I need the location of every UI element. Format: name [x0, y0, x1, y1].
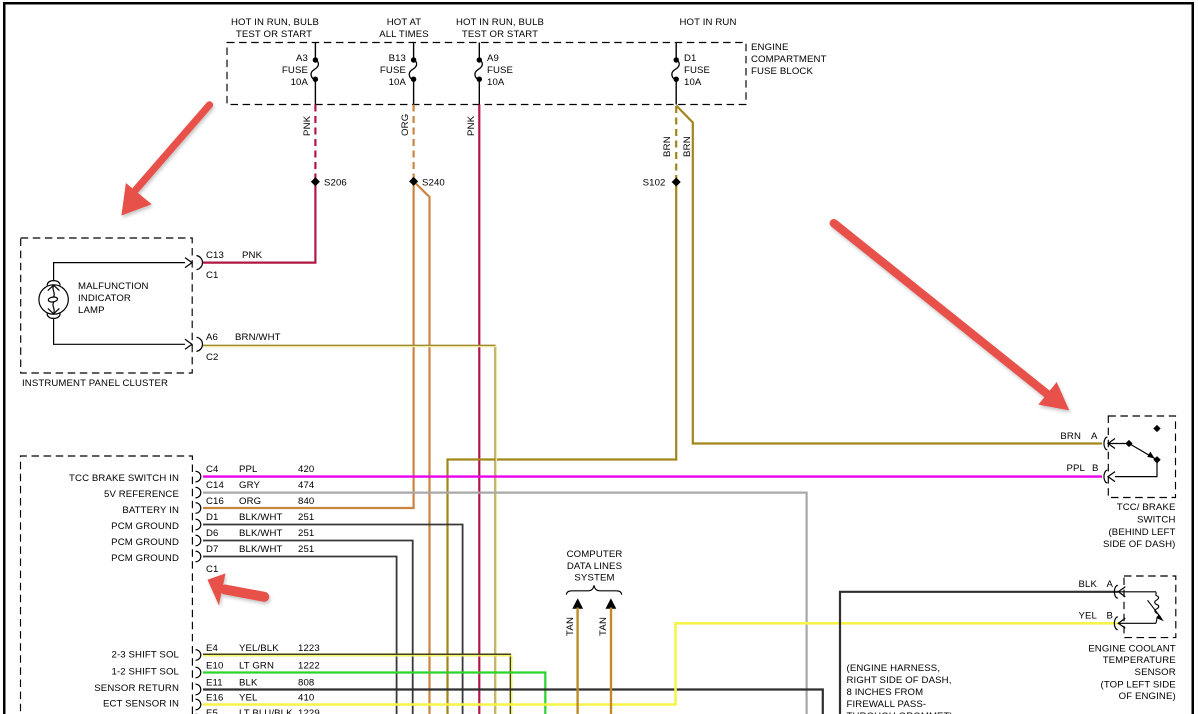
svg-text:RIGHT SIDE OF DASH,: RIGHT SIDE OF DASH,: [847, 675, 952, 686]
annotation arrow (top left, red): [121, 105, 209, 216]
feed label fuse A9: [456, 17, 544, 40]
wire BLK/WHT D7: [203, 557, 397, 714]
svg-text:ORG: ORG: [239, 496, 261, 507]
splice S206: [324, 178, 347, 189]
svg-text:GRY: GRY: [239, 480, 260, 491]
annotation arrow (small, near C1, red): [208, 573, 265, 605]
svg-text:FUSE: FUSE: [380, 65, 406, 76]
wire BLK E11: [203, 690, 823, 714]
svg-text:BRN: BRN: [662, 136, 673, 157]
fuse D1: [672, 43, 710, 105]
wire BRN S102 down-left-down: [448, 182, 677, 714]
connector arc A6: [197, 337, 203, 351]
svg-text:8 INCHES FROM: 8 INCHES FROM: [847, 687, 924, 698]
engine compartment fuse block box: [227, 43, 746, 105]
pin labels C13 / C1: [206, 250, 263, 281]
wire BRN/WHT IPC C2 to bottom (two-tone): [203, 345, 496, 714]
PCM row D1 BLK/WHT 251: [111, 512, 314, 532]
svg-text:E5: E5: [206, 708, 218, 714]
svg-text:PCM GROUND: PCM GROUND: [111, 553, 179, 564]
svg-text:E4: E4: [206, 643, 219, 654]
svg-text:10A: 10A: [684, 77, 702, 88]
feed label fuse B13: [379, 17, 429, 40]
wire LT GRN E10: [203, 673, 545, 714]
svg-text:BRN: BRN: [682, 136, 693, 157]
PCM row C4 PPL 420: [69, 464, 314, 484]
svg-text:PCM GROUND: PCM GROUND: [111, 537, 179, 548]
svg-text:420: 420: [298, 464, 314, 475]
ECT terminal B connector: [1114, 617, 1156, 630]
TCC switch contacts: [1115, 425, 1161, 477]
svg-text:D1: D1: [684, 53, 697, 64]
svg-text:(ENGINE HARNESS,: (ENGINE HARNESS,: [847, 663, 941, 674]
data line arrow TAN 1: [572, 598, 583, 609]
PCM row E4 YEL/BLK 1223: [112, 643, 320, 661]
wire PNK S206 to IPC C13: [203, 182, 315, 263]
svg-text:D7: D7: [206, 544, 219, 555]
computer data lines system callout: [567, 549, 623, 584]
svg-text:S240: S240: [422, 178, 445, 189]
fuse A3: [282, 43, 318, 105]
data line arrow TAN 2: [606, 598, 617, 609]
svg-text:A: A: [1091, 431, 1098, 442]
svg-text:B13: B13: [389, 53, 406, 64]
splice S102: [643, 178, 666, 189]
svg-text:251: 251: [298, 512, 314, 523]
svg-text:(TOP LEFT SIDE: (TOP LEFT SIDE: [1101, 679, 1176, 690]
wire BRN fuse D1 to TCC brake switch A: [676, 106, 1102, 444]
svg-text:S206: S206: [324, 178, 347, 189]
brace: [567, 585, 622, 594]
svg-text:808: 808: [298, 678, 314, 689]
TCC terminal B connector: [1104, 470, 1115, 483]
wire BLK/WHT D6: [203, 541, 413, 714]
svg-text:474: 474: [298, 480, 315, 491]
svg-text:B: B: [1092, 463, 1099, 474]
svg-text:SWITCH: SWITCH: [1137, 514, 1176, 525]
svg-text:SYSTEM: SYSTEM: [574, 573, 614, 584]
svg-text:YEL: YEL: [239, 693, 258, 704]
wire YEL/BLK E4 (two-tone): [203, 654, 512, 714]
svg-text:410: 410: [298, 693, 314, 704]
svg-text:C1: C1: [206, 564, 219, 575]
svg-text:FUSE: FUSE: [684, 65, 710, 76]
svg-text:ENGINE COOLANT: ENGINE COOLANT: [1088, 643, 1176, 654]
svg-text:E10: E10: [206, 661, 223, 672]
svg-text:SIDE OF DASH): SIDE OF DASH): [1103, 539, 1175, 550]
wire PNK fuse A3 to S206 (dashed): [314, 105, 316, 182]
svg-text:ECT SENSOR IN: ECT SENSOR IN: [103, 699, 179, 710]
PCM connector box (dashed, open bottom): [21, 456, 193, 714]
svg-text:S102: S102: [643, 178, 666, 189]
ECT caption: [1088, 643, 1176, 702]
wire ORG S240 branch down: [414, 181, 430, 714]
svg-text:251: 251: [298, 528, 314, 539]
svg-text:1223: 1223: [298, 643, 320, 654]
svg-text:YEL: YEL: [1079, 611, 1098, 622]
svg-text:TEST OR START: TEST OR START: [462, 29, 538, 40]
svg-text:PNK: PNK: [302, 115, 313, 136]
svg-text:BRN/WHT: BRN/WHT: [235, 332, 281, 343]
wire ORG S240 to PCM C16: [203, 181, 414, 508]
feed label fuse D1: [680, 17, 737, 28]
svg-text:TEST OR START: TEST OR START: [236, 29, 312, 40]
svg-text:E11: E11: [206, 678, 223, 689]
wire lamp to C13 with arrow: [54, 258, 192, 281]
svg-text:1229: 1229: [298, 708, 320, 714]
TCC switch caption: [1103, 502, 1175, 550]
svg-text:HOT AT: HOT AT: [387, 17, 421, 28]
svg-text:TAN: TAN: [598, 617, 609, 636]
svg-text:1222: 1222: [298, 661, 320, 672]
PCM row E5 LT BLU/BLK (cut off at bottom): [196, 708, 320, 714]
svg-text:10A: 10A: [291, 77, 309, 88]
svg-text:BLK: BLK: [1079, 579, 1098, 590]
svg-text:B: B: [1107, 611, 1114, 622]
svg-text:A9: A9: [487, 53, 499, 64]
svg-text:LT GRN: LT GRN: [239, 661, 274, 672]
PCM row D7 BLK/WHT 251: [111, 544, 314, 564]
svg-text:A: A: [1107, 579, 1114, 590]
svg-text:BLK: BLK: [239, 678, 258, 689]
svg-text:D1: D1: [206, 512, 219, 523]
svg-text:2-3 SHIFT SOL: 2-3 SHIFT SOL: [112, 650, 180, 661]
splice dot S206: [311, 177, 320, 186]
svg-text:TAN: TAN: [565, 617, 576, 636]
splice dot S240: [409, 177, 418, 186]
svg-text:BATTERY IN: BATTERY IN: [122, 505, 179, 516]
svg-text:A3: A3: [296, 53, 308, 64]
svg-text:E16: E16: [206, 693, 223, 704]
svg-text:C16: C16: [206, 496, 224, 507]
svg-text:PPL: PPL: [239, 464, 258, 475]
svg-text:C2: C2: [206, 352, 219, 363]
TCC terminal A connector: [1104, 437, 1129, 450]
PCM row C14 GRY 474: [104, 480, 315, 500]
instrument panel cluster box: [21, 238, 193, 373]
svg-text:840: 840: [298, 496, 314, 507]
svg-text:A6: A6: [206, 332, 218, 343]
svg-text:BLK/WHT: BLK/WHT: [239, 544, 283, 555]
wire BRN fuse D1 to S102 (dashed): [675, 106, 677, 182]
svg-text:LAMP: LAMP: [78, 305, 105, 316]
wire PPL PCM C4 to TCC brake switch B: [203, 475, 1102, 477]
wire ORG fuse B13 to S240 (dashed): [413, 105, 415, 182]
engine coolant temperature sensor box: [1124, 576, 1176, 638]
PCM row D6 BLK/WHT 251: [111, 528, 314, 548]
svg-text:INSTRUMENT PANEL CLUSTER: INSTRUMENT PANEL CLUSTER: [22, 378, 168, 389]
ECT terminal A connector: [1114, 585, 1156, 598]
svg-text:PNK: PNK: [466, 115, 477, 136]
svg-text:FUSE: FUSE: [487, 65, 513, 76]
svg-text:ENGINE: ENGINE: [751, 42, 789, 53]
svg-text:BLK/WHT: BLK/WHT: [239, 512, 283, 523]
svg-text:C13: C13: [206, 250, 224, 261]
svg-text:PNK: PNK: [242, 250, 263, 261]
svg-text:C4: C4: [206, 464, 219, 475]
PCM row E11 BLK 808: [94, 678, 314, 695]
PCM row E10 LT GRN 1222: [112, 661, 320, 678]
svg-text:FUSE: FUSE: [282, 65, 308, 76]
svg-text:HOT IN RUN, BULB: HOT IN RUN, BULB: [231, 17, 319, 28]
ECT thermistor: [1148, 592, 1161, 624]
svg-text:YEL/BLK: YEL/BLK: [239, 643, 279, 654]
svg-text:SENSOR RETURN: SENSOR RETURN: [94, 683, 179, 694]
svg-text:C14: C14: [206, 480, 225, 491]
svg-text:ALL TIMES: ALL TIMES: [379, 29, 429, 40]
svg-text:(BEHIND LEFT: (BEHIND LEFT: [1108, 527, 1175, 538]
svg-text:TEMPERATURE: TEMPERATURE: [1103, 655, 1176, 666]
wire BLK/WHT D1: [203, 525, 463, 714]
svg-text:COMPUTER: COMPUTER: [567, 549, 623, 560]
wire PNK fuse A9 down: [478, 105, 480, 714]
feed label fuse A3: [231, 17, 319, 40]
svg-text:10A: 10A: [389, 77, 407, 88]
svg-text:HOT IN RUN: HOT IN RUN: [680, 17, 737, 28]
svg-text:C1: C1: [206, 270, 219, 281]
svg-text:ORG: ORG: [400, 114, 411, 136]
splice S240: [422, 178, 445, 189]
svg-text:MALFUNCTION: MALFUNCTION: [78, 281, 149, 292]
annotation arrow (right, red): [834, 223, 1070, 410]
svg-text:BLK/WHT: BLK/WHT: [239, 528, 283, 539]
wire lamp to A6 with arrow: [54, 318, 192, 349]
PCM row E16 YEL 410: [103, 693, 314, 710]
malfunction indicator lamp: [39, 281, 68, 319]
svg-text:TCC/ BRAKE: TCC/ BRAKE: [1117, 502, 1176, 513]
PCM row C16 ORG 840: [122, 496, 314, 516]
engine harness location note: [847, 663, 953, 714]
svg-text:LT BLU/BLK: LT BLU/BLK: [239, 708, 293, 714]
svg-text:SENSOR: SENSOR: [1135, 667, 1176, 678]
svg-text:HOT IN RUN, BULB: HOT IN RUN, BULB: [456, 17, 544, 28]
TCC brake switch box: [1108, 416, 1175, 498]
svg-text:D6: D6: [206, 528, 219, 539]
fuse A9: [475, 43, 513, 105]
splice dot S102: [672, 177, 681, 186]
wire YEL E16 to ECT sensor B: [203, 623, 1118, 704]
svg-text:5V REFERENCE: 5V REFERENCE: [104, 489, 179, 500]
svg-text:FIREWALL PASS-: FIREWALL PASS-: [847, 699, 927, 710]
svg-text:1-2 SHIFT SOL: 1-2 SHIFT SOL: [112, 667, 180, 678]
pin labels A6 / C2: [206, 332, 281, 363]
svg-text:FUSE BLOCK: FUSE BLOCK: [751, 66, 813, 77]
svg-text:PPL: PPL: [1067, 463, 1086, 474]
svg-text:INDICATOR: INDICATOR: [78, 293, 131, 304]
connector arc C13: [197, 256, 203, 270]
svg-text:PCM GROUND: PCM GROUND: [111, 521, 179, 532]
svg-text:DATA LINES: DATA LINES: [567, 561, 622, 572]
svg-text:BRN: BRN: [1060, 431, 1081, 442]
svg-text:10A: 10A: [487, 77, 505, 88]
fuse block caption: [751, 42, 827, 77]
svg-text:TCC BRAKE SWITCH IN: TCC BRAKE SWITCH IN: [69, 473, 179, 484]
svg-text:251: 251: [298, 544, 314, 555]
wire GRY PCM C14 down right side: [203, 493, 807, 714]
svg-text:COMPARTMENT: COMPARTMENT: [751, 54, 827, 65]
wire BLK ECT sensor A down: [840, 592, 1118, 714]
svg-text:OF ENGINE): OF ENGINE): [1119, 691, 1176, 702]
fuse B13: [380, 43, 417, 105]
